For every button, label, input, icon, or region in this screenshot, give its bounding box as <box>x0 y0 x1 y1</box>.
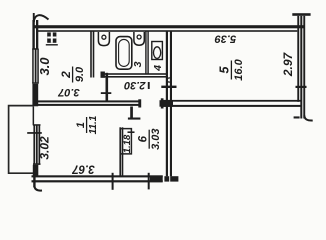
node closet tick <box>128 131 135 133</box>
wire bathroom south wall <box>102 73 167 75</box>
wire bottom wall <box>32 175 163 177</box>
node bathroom south wall end cap <box>101 72 105 78</box>
svg-text:3.67: 3.67 <box>72 162 95 174</box>
wire room5 wall base feet <box>164 176 169 181</box>
sink right bathroom <box>134 32 144 45</box>
wire right wall lines <box>297 16 299 102</box>
bathtub <box>116 37 132 70</box>
node kitchen wall end cap <box>138 99 141 107</box>
wire kitchen-room1 wall <box>36 100 140 102</box>
sink left bathroom <box>98 32 109 46</box>
svg-text:6: 6 <box>138 135 150 142</box>
svg-text:3: 3 <box>132 61 144 67</box>
label room1 fraction 1/11.1 <box>75 115 99 134</box>
node room5 bottom wall left solid end <box>160 100 174 107</box>
wire bottom-left wall stub <box>33 172 35 188</box>
label room6 fraction 6/3.03 <box>138 128 163 149</box>
wire corridor wall <box>106 73 109 102</box>
svg-text:2: 2 <box>59 71 73 79</box>
wire bathroom-toilet wall <box>145 31 146 75</box>
svg-text:9.0: 9.0 <box>74 66 86 82</box>
node 2.30 dim tick right <box>148 82 150 89</box>
vent shaft symbol kitchen <box>46 32 58 45</box>
svg-text:3.0: 3.0 <box>37 57 52 76</box>
wire room1 window triple lines <box>33 125 35 164</box>
node bottom wall tick 2 <box>148 173 150 190</box>
svg-text:1.18: 1.18 <box>122 134 133 153</box>
svg-text:5.39: 5.39 <box>214 33 236 45</box>
wire kitchen window triple lines <box>32 49 34 84</box>
svg-text:3.07: 3.07 <box>57 86 79 98</box>
wire left wall upper solid <box>32 20 34 49</box>
node corridor wall tick <box>101 92 112 94</box>
svg-text:3.02: 3.02 <box>38 136 52 160</box>
svg-text:11.1: 11.1 <box>88 115 99 134</box>
svg-text:1: 1 <box>75 122 87 128</box>
svg-text:2.97: 2.97 <box>281 51 295 77</box>
toilet <box>152 42 163 60</box>
node bottom wall tick 1 <box>112 173 114 190</box>
wire left wall top hook <box>33 13 35 22</box>
wire room5 bottom wall <box>163 100 301 102</box>
svg-text:2.30: 2.30 <box>123 79 146 91</box>
wire right wall cap <box>292 13 310 16</box>
wire room1-room6 wall <box>119 127 121 175</box>
wire balcony outline <box>9 106 33 174</box>
node room5 wall hinge loop <box>167 78 171 82</box>
node room5 door jamb serif <box>161 98 164 108</box>
wire room5 left wall <box>166 31 168 176</box>
wire top outer wall <box>34 25 304 28</box>
wire closet outline <box>120 129 132 154</box>
svg-text:4: 4 <box>152 65 164 72</box>
svg-text:16.0: 16.0 <box>233 58 245 80</box>
node right wall window tick <box>296 86 307 88</box>
wire left wall mid solid <box>32 84 38 107</box>
door leaf room1 <box>130 107 133 119</box>
label room2 fraction 2/9.0 <box>59 66 86 83</box>
wire kitchen-bathroom wall <box>90 31 92 78</box>
svg-text:5: 5 <box>217 65 231 73</box>
label room5 fraction 5/16.0 <box>217 58 245 80</box>
wire left wall bottom solid <box>33 165 39 177</box>
node window tick 3.02 <box>27 132 42 134</box>
wire balcony door thin line <box>33 106 35 125</box>
wire right wall bottom serif <box>294 116 300 118</box>
svg-text:3.03: 3.03 <box>150 128 162 149</box>
node room5 door hatch <box>161 86 176 88</box>
